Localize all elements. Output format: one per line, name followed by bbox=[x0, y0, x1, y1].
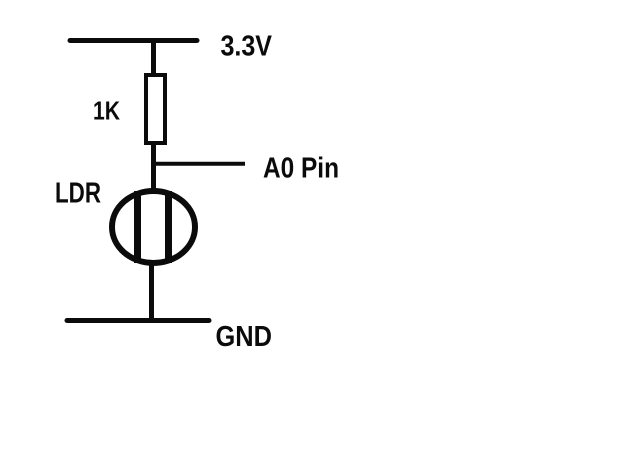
svg-text:1K: 1K bbox=[93, 96, 120, 126]
wire from resistor R1 to node A0 and LDR bbox=[151, 143, 156, 192]
value label 1K bbox=[93, 96, 120, 126]
wire from node A0 to A0 Pin bbox=[152, 162, 245, 166]
resistor R1 (1K) bbox=[146, 75, 165, 143]
LDR element right bar bbox=[165, 191, 172, 263]
svg-text:LDR: LDR bbox=[55, 178, 101, 210]
svg-text:A0 Pin: A0 Pin bbox=[263, 153, 339, 185]
LDR photoresistor body (circle) bbox=[112, 191, 195, 263]
label GND bbox=[216, 321, 273, 353]
ground rail bbox=[67, 318, 209, 323]
power rail 3.3V bbox=[70, 38, 197, 43]
wire from 3.3V rail to resistor R1 bbox=[151, 40, 156, 76]
svg-text:3.3V: 3.3V bbox=[221, 31, 273, 63]
LDR element left bar bbox=[134, 191, 141, 263]
label 3.3V bbox=[221, 31, 273, 63]
wire from LDR to ground rail bbox=[149, 262, 154, 321]
label A0 Pin bbox=[263, 153, 339, 185]
label LDR bbox=[55, 178, 101, 210]
svg-text:GND: GND bbox=[216, 321, 273, 353]
